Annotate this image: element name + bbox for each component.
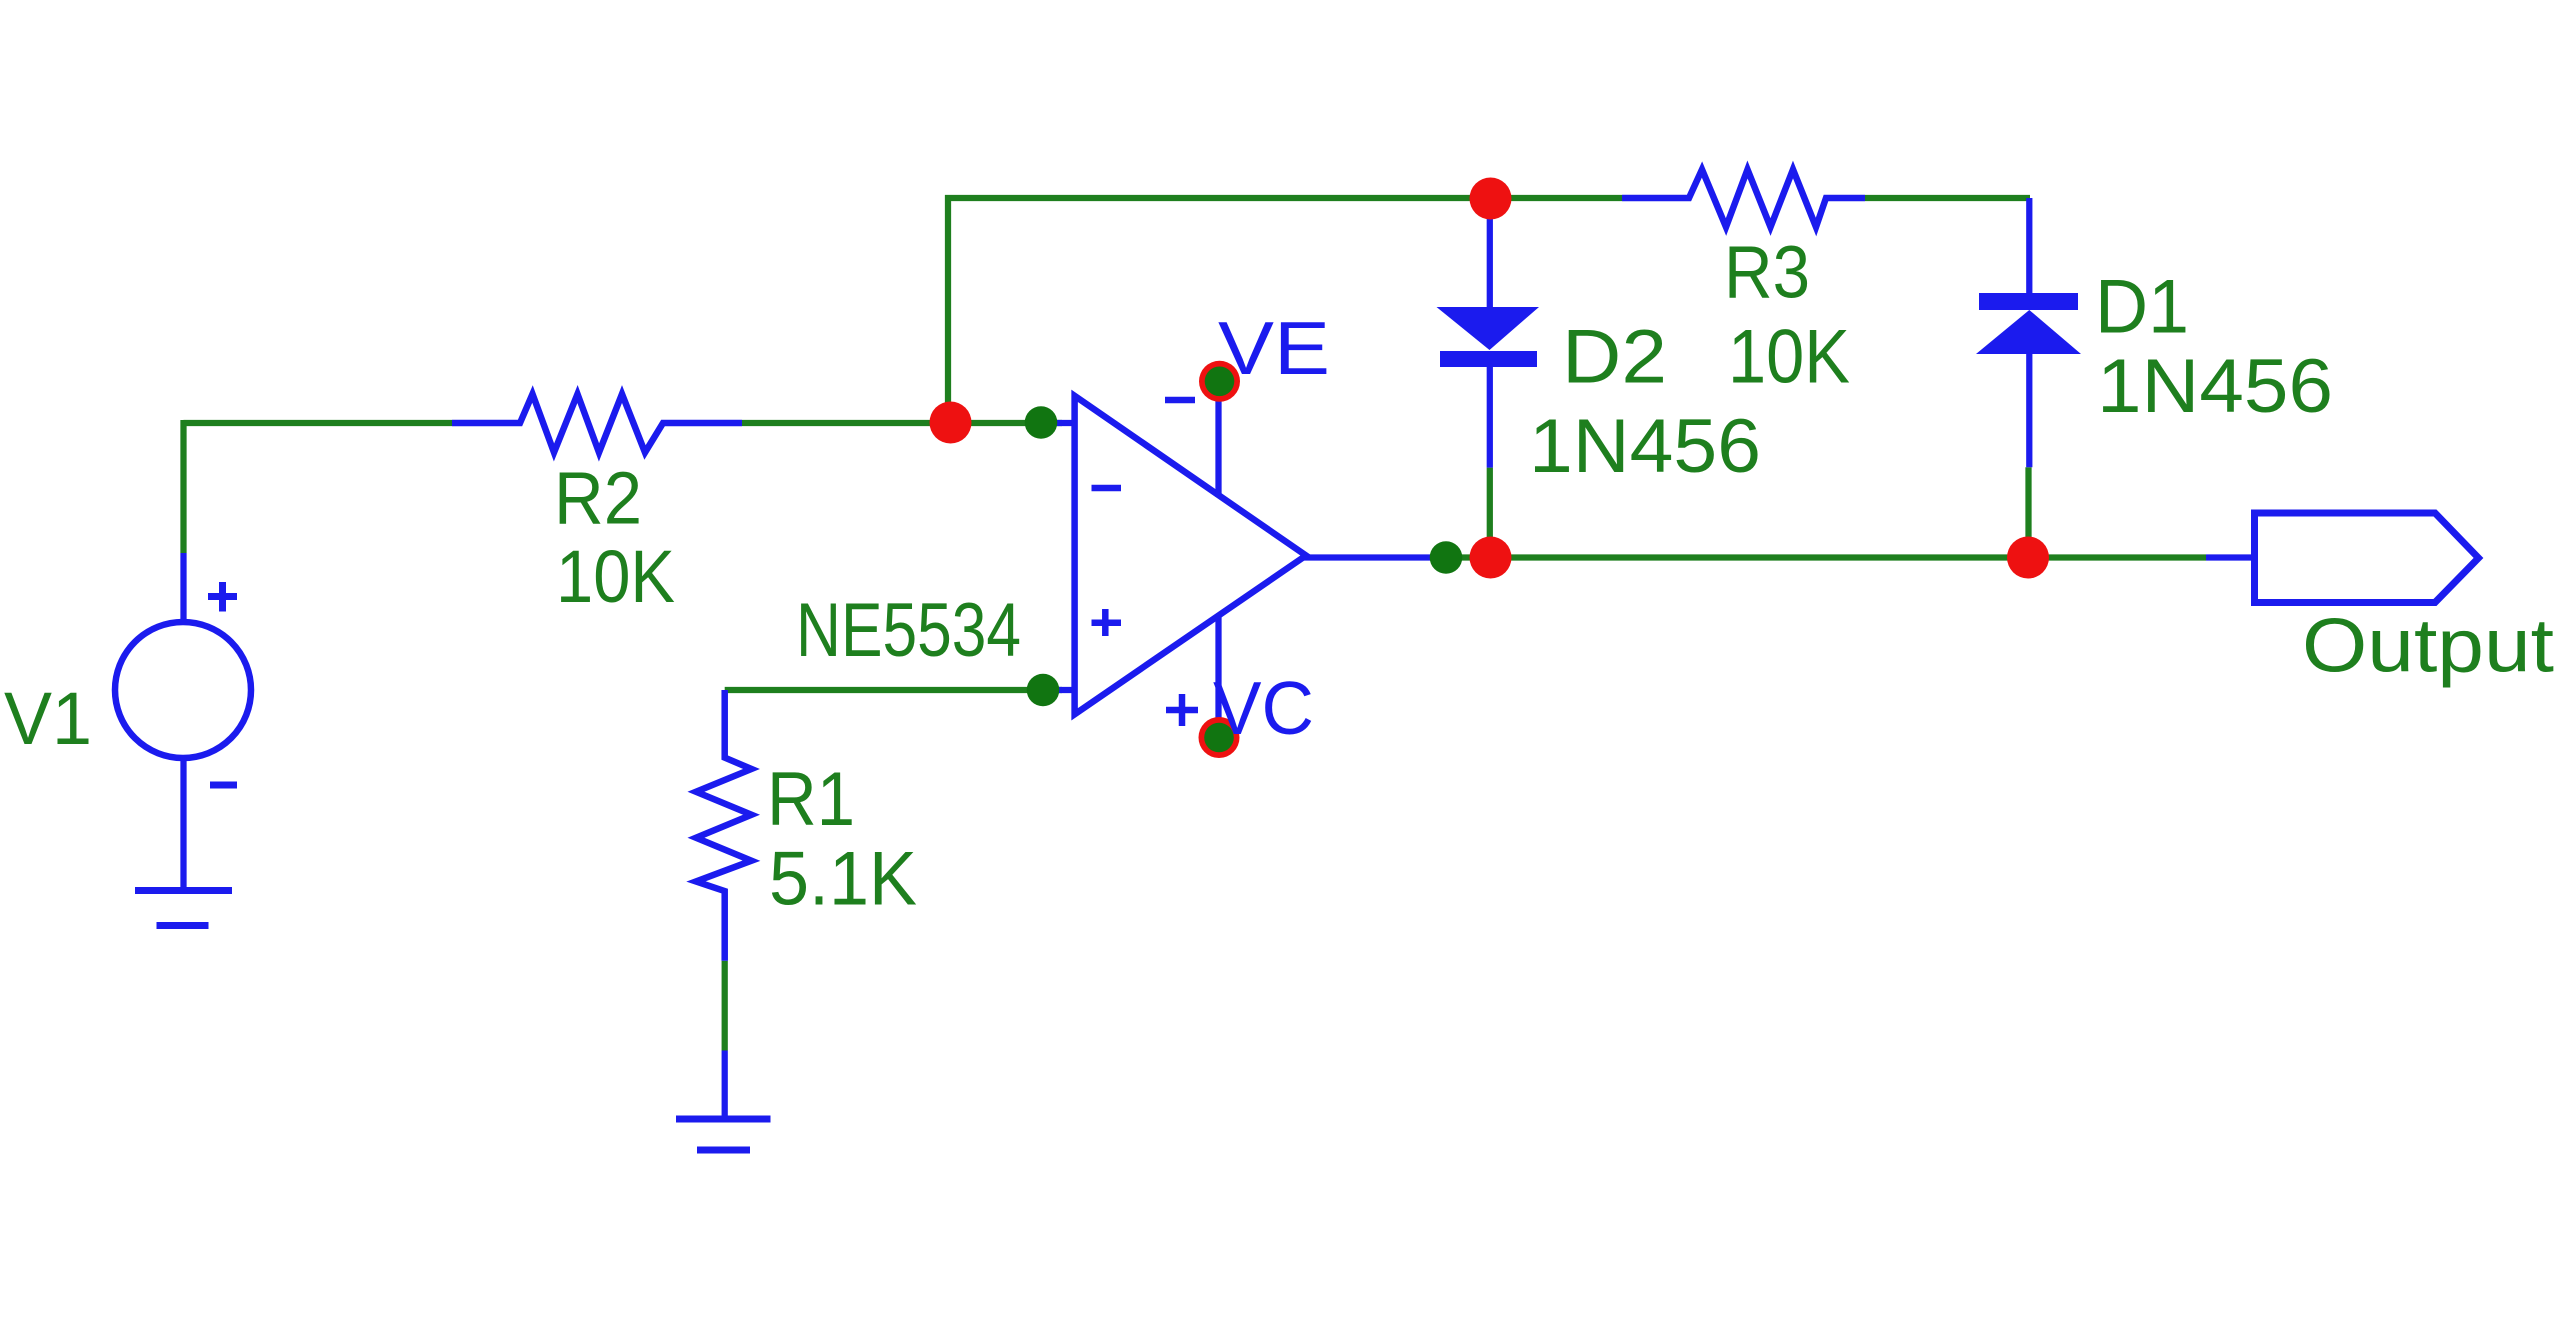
- svg-text:D1: D1: [2095, 265, 2189, 350]
- svg-text:10K: 10K: [1728, 315, 1850, 400]
- svg-text:VE: VE: [1218, 306, 1330, 390]
- svg-text:R3: R3: [1724, 231, 1810, 314]
- svg-text:NE5534: NE5534: [796, 588, 1021, 673]
- svg-text:1N456: 1N456: [2097, 344, 2333, 429]
- svg-text:Output: Output: [2302, 604, 2554, 689]
- svg-text:VC: VC: [1213, 666, 1314, 750]
- svg-text:10K: 10K: [556, 535, 675, 618]
- svg-text:5.1K: 5.1K: [769, 837, 917, 922]
- svg-text:1N456: 1N456: [1529, 404, 1761, 489]
- svg-text:D2: D2: [1562, 315, 1667, 400]
- svg-text:R1: R1: [767, 757, 855, 842]
- svg-text:V1: V1: [4, 677, 92, 760]
- svg-text:R2: R2: [554, 457, 642, 540]
